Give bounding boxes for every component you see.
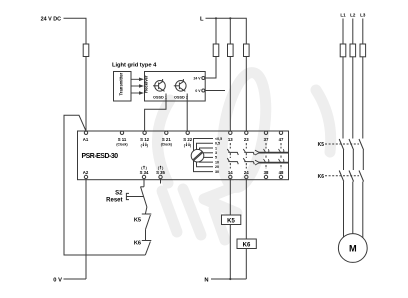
coil K6 — [237, 239, 256, 249]
svg-text:OSSD 1: OSSD 1 — [153, 95, 167, 99]
svg-text:K6: K6 — [318, 174, 325, 180]
terminal S12 — [140, 131, 149, 147]
linked bar row2 — [255, 159, 288, 165]
svg-text:0,5: 0,5 — [215, 142, 220, 146]
fuse F3 — [228, 44, 234, 57]
svg-text:<0,5: <0,5 — [215, 137, 222, 141]
wire drop1 — [215, 18, 217, 44]
terminal 0V out — [195, 89, 225, 93]
terminal A1 — [83, 131, 89, 142]
contact 13-14 dashes — [229, 143, 231, 169]
svg-text:S 35: S 35 — [156, 170, 165, 175]
wire 14 to K5 coil — [229, 179, 231, 215]
node N-K5 junction — [229, 278, 231, 280]
terminal S21 — [161, 131, 172, 146]
svg-text:K6: K6 — [243, 243, 251, 249]
fuse F6 — [350, 44, 356, 57]
wire 24 to K6 coil — [245, 179, 247, 239]
wire 0V — [64, 278, 87, 280]
wire A2 to 0V — [85, 179, 87, 279]
wire fuse to A1 — [85, 57, 87, 132]
wire fuse2 to 24V terminal — [205, 57, 216, 79]
svg-text:PSR-ESD-30: PSR-ESD-30 — [82, 153, 119, 160]
watermark — [157, 70, 330, 240]
coil K5 — [222, 215, 241, 225]
wire K6 coil to N — [245, 249, 247, 280]
contactor K5 contacts — [318, 139, 364, 150]
wire phase L3 — [362, 19, 364, 45]
svg-text:5: 5 — [215, 156, 217, 160]
wire S34 down — [143, 179, 145, 187]
svg-text:Reset: Reset — [106, 197, 122, 203]
terminal 47 — [279, 131, 284, 142]
contact 37-38 dashes — [265, 143, 267, 169]
pushbutton actuator — [126, 193, 143, 199]
svg-text:10: 10 — [215, 160, 219, 164]
timer dial — [191, 149, 204, 162]
relay box PSR-ESD-30 — [78, 131, 289, 180]
svg-text:Receiver: Receiver — [143, 75, 148, 93]
svg-text:48: 48 — [279, 170, 284, 175]
svg-text:A2: A2 — [83, 170, 89, 175]
wire N rail — [211, 278, 246, 280]
light beam arrows — [131, 78, 144, 95]
svg-text:3: 3 — [215, 151, 217, 155]
svg-text:M: M — [349, 243, 357, 253]
svg-text:20: 20 — [215, 165, 219, 169]
svg-text:14: 14 — [228, 170, 233, 175]
svg-text:24 V: 24 V — [194, 76, 202, 80]
svg-text:47: 47 — [279, 137, 284, 142]
svg-text:S 34: S 34 — [140, 170, 149, 175]
fuse F7 — [360, 44, 366, 57]
svg-text:N: N — [204, 277, 208, 283]
contact 47-48 dashes — [280, 143, 282, 169]
svg-text:L: L — [200, 17, 204, 23]
label S2 Reset — [106, 190, 123, 203]
dial fan wires — [194, 139, 214, 172]
fuse F5 — [340, 44, 346, 57]
wires K5 to K6 contacts — [344, 150, 364, 170]
node L-drop2 — [229, 17, 231, 19]
label L — [200, 17, 204, 23]
wires fuses to K5 contacts — [343, 57, 363, 139]
linked bar row1 — [255, 149, 288, 155]
wire K5 to K6 — [145, 229, 147, 240]
svg-text:37: 37 — [264, 137, 269, 142]
terminal 13 — [228, 131, 233, 142]
terminal 23 — [244, 131, 249, 142]
contact K6 NC — [134, 241, 151, 256]
svg-text:K6: K6 — [134, 241, 141, 247]
wire reset loop from A1 — [64, 115, 145, 255]
fuse F2 — [213, 44, 219, 57]
svg-text:13: 13 — [228, 137, 233, 142]
label 24VDC — [41, 16, 61, 22]
wire K5 coil to N — [229, 225, 231, 280]
svg-text:L2: L2 — [350, 13, 356, 18]
terminal 24V out — [194, 76, 205, 80]
NO contact 23 row2 — [243, 158, 254, 164]
NO contact 13 row1 — [227, 149, 238, 155]
svg-text:S 11: S 11 — [118, 137, 127, 142]
contact 23-24 dashes — [245, 143, 247, 169]
NO contact 23 row1 — [243, 149, 254, 155]
svg-text:0 V: 0 V — [195, 89, 201, 93]
svg-text:24 V DC: 24 V DC — [41, 16, 61, 22]
terminal 14 — [228, 170, 233, 179]
svg-text:L1: L1 — [340, 13, 346, 18]
wire L rail — [206, 18, 247, 44]
wires K6 to motor — [344, 182, 363, 238]
label L3 — [360, 13, 366, 18]
label L2 — [350, 13, 356, 18]
transistor OSSD2 — [174, 79, 188, 99]
wire OSSD2 to S22 — [186, 94, 188, 132]
wire fuse3 to 13 — [229, 57, 231, 132]
svg-text:0 V: 0 V — [53, 277, 62, 283]
node L-drop1 — [215, 17, 217, 19]
svg-text:(Clock): (Clock) — [161, 143, 172, 147]
svg-text:Transmitter: Transmitter — [118, 72, 123, 95]
wire S2 to K5 — [145, 207, 147, 214]
motor M — [338, 234, 367, 263]
svg-text:OSSD 2: OSSD 2 — [174, 95, 188, 99]
terminal 38 — [264, 170, 269, 179]
svg-text:S 22: S 22 — [183, 137, 192, 142]
svg-text:K5: K5 — [318, 142, 325, 148]
wire OSSD1 to S12 — [145, 94, 166, 132]
wire 24VDC feed — [64, 18, 87, 44]
wire fuse4 to 23 — [245, 57, 247, 132]
contactor K6 contacts — [318, 171, 364, 182]
receiver box — [143, 72, 205, 102]
terminal 48 — [279, 170, 284, 179]
svg-text:30: 30 — [215, 170, 219, 174]
terminal A2 — [83, 170, 89, 179]
svg-text:1: 1 — [215, 146, 217, 150]
terminal S11 — [116, 131, 127, 146]
label N — [204, 277, 208, 283]
svg-text:24: 24 — [244, 170, 249, 175]
svg-text:S 12: S 12 — [140, 137, 149, 142]
svg-text:L3: L3 — [360, 13, 366, 18]
wire phase L2 — [352, 19, 354, 45]
terminal S35 — [156, 166, 165, 184]
fuse F4 — [244, 44, 250, 57]
contact K5 NC — [134, 214, 151, 229]
svg-text:K5: K5 — [134, 218, 141, 224]
transmitter box — [114, 72, 132, 102]
svg-text:38: 38 — [264, 170, 269, 175]
fuse F1 — [83, 44, 89, 57]
label L1 — [340, 13, 346, 18]
dial scale labels — [215, 137, 222, 174]
transistor OSSD1 — [153, 79, 167, 99]
label Light grid type 4 — [112, 62, 157, 68]
wire drop2 — [229, 18, 231, 44]
svg-text:Light grid type 4: Light grid type 4 — [112, 62, 157, 68]
label 0V — [53, 277, 62, 283]
svg-text:(Clock): (Clock) — [116, 143, 127, 147]
wire phase L1 — [342, 19, 344, 45]
NO contact 13 row2 — [227, 158, 238, 164]
svg-text:K5: K5 — [227, 219, 235, 225]
terminal S34 — [140, 166, 149, 179]
svg-text:23: 23 — [244, 137, 249, 142]
terminal 24 — [244, 170, 249, 179]
terminal S22 — [183, 131, 192, 147]
svg-text:S2: S2 — [115, 190, 123, 196]
svg-text:S 21: S 21 — [162, 137, 171, 142]
contact S2 reset — [140, 187, 147, 207]
terminal 37 — [264, 131, 269, 142]
svg-text:A1: A1 — [83, 137, 89, 142]
